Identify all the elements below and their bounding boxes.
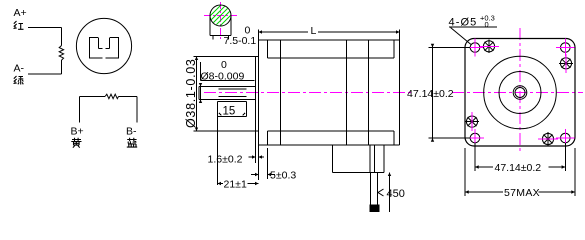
shaft flat edges — [219, 89, 247, 97]
assembly screw bottom-right — [538, 132, 558, 146]
body rear face — [399, 30, 401, 146]
shaft section centerline vertical — [220, 2, 222, 41]
body section line 2 — [368, 40, 370, 145]
wire B- vertical — [136, 97, 138, 123]
svg-text:47.14±0.2: 47.14±0.2 — [407, 88, 454, 100]
mounting hole top-left — [470, 43, 480, 53]
wire connector end — [370, 205, 380, 213]
phase A winding (inductor zigzag) — [61, 28, 63, 46]
assembly screw top-left — [480, 40, 499, 54]
dimension L — [259, 31, 400, 33]
svg-text:15: 15 — [223, 105, 236, 117]
body outline bottom — [259, 144, 400, 146]
dimension 21±1 shaft length — [217, 117, 219, 186]
wire B+ vertical — [79, 97, 81, 123]
lead color label 黄 (yellow) — [71, 138, 81, 148]
lead color label 红 (red) — [14, 21, 24, 29]
lead color label 蓝 (blue) — [127, 138, 137, 147]
boss circle Ø38.1 — [484, 56, 557, 129]
boss Ø38.1 front pilot — [256, 57, 259, 132]
body outline top — [259, 39, 400, 41]
svg-text:Ø38.1-0.03: Ø38.1-0.03 — [184, 58, 198, 128]
stator symbol inside motor circle — [89, 38, 119, 59]
mounting hole bottom-left — [470, 133, 480, 143]
boss extension lines — [194, 57, 256, 132]
svg-text:B+: B+ — [71, 126, 84, 138]
svg-text:1.6±0.2: 1.6±0.2 — [208, 154, 243, 166]
svg-text:57MAX: 57MAX — [504, 187, 540, 199]
svg-text:47.14±0.2: 47.14±0.2 — [495, 162, 542, 174]
wire A+ top — [28, 27, 62, 29]
dimension feet under detail — [213, 36, 229, 40]
dimension Ø38.1 0/-0.03 vertical — [196, 57, 198, 132]
body section line 1 — [346, 40, 348, 145]
dimension 1.6±0.2 boss height — [255, 131, 257, 163]
svg-text:0: 0 — [485, 20, 489, 29]
centerline of shaft/body — [204, 92, 413, 94]
svg-text:A+: A+ — [14, 7, 27, 19]
svg-text:L: L — [311, 25, 317, 37]
svg-text:A-: A- — [14, 63, 25, 75]
shaft flat body outline — [210, 16, 231, 36]
svg-text:0: 0 — [221, 59, 227, 71]
lead color label 绿 (green) — [14, 76, 24, 85]
terminal box inner lines — [370, 145, 375, 173]
front view vertical centerline — [519, 28, 521, 153]
assembly screw bottom-left — [466, 112, 480, 131]
motor face square — [465, 39, 575, 147]
assembly screw top-right — [559, 54, 573, 73]
svg-text:B-: B- — [126, 126, 137, 138]
svg-text:7.5-0.1: 7.5-0.1 — [224, 35, 257, 47]
mounting hole top-right — [561, 43, 571, 53]
svg-text:450: 450 — [387, 188, 405, 200]
body corner chamfer line bottom — [268, 131, 395, 145]
lead wires — [371, 173, 378, 205]
dimension 57MAX — [465, 148, 575, 196]
motor flange front face — [258, 30, 260, 181]
dimension 15 box (shaft flat length) — [218, 102, 247, 117]
front view horizontal centerline — [452, 92, 583, 94]
mounting hole bottom-right — [561, 133, 571, 143]
motor circle — [76, 18, 131, 73]
dimension 450 wire length — [389, 173, 391, 213]
dimension 5±0.3 front cap step — [267, 148, 269, 179]
svg-text:21±1: 21±1 — [224, 179, 247, 191]
inner circle — [499, 72, 541, 114]
dimension 47.14±0.2 vertical — [429, 48, 471, 139]
wire B top with phase B winding — [80, 96, 105, 98]
shaft circle Ø8 — [513, 86, 527, 100]
body corner chamfer line top — [268, 40, 395, 58]
shaft outline — [199, 87, 256, 100]
front end cap boundary — [280, 40, 282, 145]
terminal box — [333, 145, 385, 173]
svg-text:5±0.3: 5±0.3 — [270, 170, 296, 182]
dimension 47.14±0.2 horizontal — [475, 143, 565, 171]
shaft section centerline horizontal — [204, 15, 237, 17]
wire A- bottom — [28, 73, 62, 75]
